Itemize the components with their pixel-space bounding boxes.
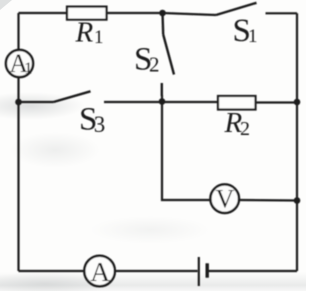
node left middle junction (15, 99, 22, 106)
wire bottom middle (A to battery) (115, 270, 198, 272)
wire vertical node to voltmeter row (162, 102, 210, 200)
svg-text:3: 3 (94, 112, 106, 137)
battery short thick plate (205, 263, 208, 277)
ammeter A1 (6, 50, 33, 77)
wire middle left (19, 101, 54, 103)
wire top-left rail upper (17, 13, 19, 50)
switch S1 blade (216, 3, 257, 15)
svg-text:1: 1 (24, 59, 33, 78)
wire right rail (296, 13, 298, 271)
wire top horizontal middle (107, 13, 217, 15)
node center middle junction (159, 98, 166, 105)
switch S3 blade (54, 91, 91, 102)
wire left rail lower (17, 78, 19, 272)
wire middle center (104, 101, 218, 103)
wire bottom left (19, 270, 85, 272)
wire top horizontal left (19, 12, 68, 14)
svg-text:2: 2 (240, 118, 250, 140)
voltmeter V (210, 184, 239, 213)
svg-text:V: V (216, 184, 235, 213)
ammeter A (84, 256, 115, 287)
svg-text:2: 2 (149, 53, 160, 77)
wire voltmeter to right rail (239, 199, 297, 202)
switch S2 stem (161, 13, 164, 35)
switch S2 blade (163, 35, 174, 75)
svg-text:R: R (75, 17, 94, 49)
resistor R2 (218, 96, 256, 110)
node right voltmeter junction (294, 197, 301, 204)
node top junction (159, 10, 166, 17)
wire top horizontal right (266, 12, 298, 14)
resistor R1 (67, 7, 107, 20)
battery long plate (198, 257, 200, 286)
node right middle junction (294, 99, 301, 106)
switch S2 lower contact (161, 83, 163, 96)
wire middle right (256, 101, 298, 103)
svg-text:1: 1 (248, 26, 258, 47)
wire bottom right (battery to rail) (209, 270, 298, 272)
svg-text:1: 1 (94, 27, 104, 48)
wire S2 drop to middle node (161, 95, 163, 102)
svg-text:A: A (90, 256, 110, 287)
